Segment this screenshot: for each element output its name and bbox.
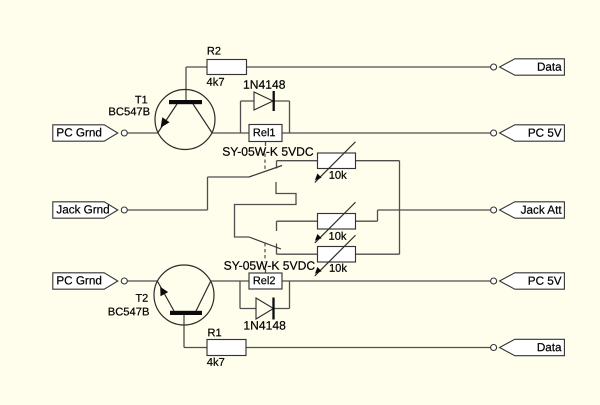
svg-text:10k: 10k xyxy=(328,231,346,243)
svg-text:PC 5V: PC 5V xyxy=(528,127,562,140)
svg-text:Rel1: Rel1 xyxy=(253,127,276,139)
svg-text:T2: T2 xyxy=(135,293,148,305)
svg-text:10k: 10k xyxy=(329,263,347,275)
svg-text:Data: Data xyxy=(537,61,562,74)
svg-text:T1: T1 xyxy=(135,94,148,106)
svg-text:PC Grnd: PC Grnd xyxy=(56,274,101,287)
svg-text:Jack Grnd: Jack Grnd xyxy=(56,203,109,216)
svg-text:10k: 10k xyxy=(329,170,347,182)
svg-text:BC547B: BC547B xyxy=(108,106,150,118)
svg-text:SY-05W-K 5VDC: SY-05W-K 5VDC xyxy=(222,145,314,159)
svg-text:Data: Data xyxy=(537,341,562,354)
svg-text:Jack Att: Jack Att xyxy=(521,204,563,217)
svg-text:R2: R2 xyxy=(207,45,221,57)
svg-text:1N4148: 1N4148 xyxy=(243,318,286,332)
svg-text:PC 5V: PC 5V xyxy=(528,275,562,288)
svg-text:SY-05W-K 5VDC: SY-05W-K 5VDC xyxy=(224,259,316,273)
svg-text:4k7: 4k7 xyxy=(207,357,225,369)
svg-text:R1: R1 xyxy=(208,327,222,339)
svg-text:4k7: 4k7 xyxy=(207,77,225,89)
svg-text:PC Grnd: PC Grnd xyxy=(56,126,101,139)
svg-text:Rel2: Rel2 xyxy=(253,275,276,287)
svg-text:1N4148: 1N4148 xyxy=(243,78,286,92)
svg-text:BC547B: BC547B xyxy=(108,306,150,318)
